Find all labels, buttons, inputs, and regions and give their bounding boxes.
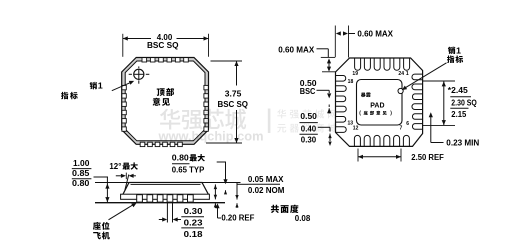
- pad extension lines: [422, 81, 455, 125]
- 0.02 NOM witness line: [235, 183, 238, 200]
- 0.20 REF bracket: [215, 203, 221, 218]
- separator line: [300, 133, 318, 135]
- dimension 3.75 BSC SQ line and arrows: [234, 61, 238, 143]
- svg-text:19: 19: [352, 71, 358, 77]
- svg-text:18: 18: [348, 79, 354, 85]
- 0.65 TYP bracket: [217, 162, 228, 194]
- separator line: [172, 163, 190, 165]
- separator line: [72, 168, 92, 170]
- pin width arrows: [159, 217, 181, 221]
- 12° lead edge line: [125, 175, 129, 191]
- bottom view bottom pins: [354, 135, 409, 146]
- label 意见: [153, 98, 161, 106]
- svg-text:0.60 MAX: 0.60 MAX: [278, 44, 314, 54]
- 0.40 arrows: [328, 134, 331, 146]
- watermark: [158, 109, 337, 144]
- 0.60 MAX left arrows: [327, 58, 331, 71]
- pin 1 leader arrow: [112, 81, 134, 91]
- label 指标 (top view): [61, 92, 68, 99]
- svg-text:0.30: 0.30: [184, 206, 203, 216]
- separator line: [450, 96, 471, 98]
- separator line: [300, 122, 318, 124]
- 0.60 MAX left extension lines: [321, 57, 336, 71]
- 0.60 MAX left leader: [317, 49, 329, 57]
- separator line: [450, 107, 468, 109]
- svg-text:6: 6: [406, 121, 409, 127]
- bottom view right pins: [412, 74, 422, 129]
- bottom view package outline: [336, 58, 423, 146]
- pin 1 indicator target symbol: [129, 66, 150, 83]
- bottom view left pins: [336, 76, 347, 133]
- dimension 4.00 BSC SQ extension lines: [123, 34, 209, 57]
- dimension 3.75 BSC SQ extension lines: [206, 61, 242, 143]
- top view package outer outline: [122, 58, 209, 145]
- pin numbers: [348, 71, 410, 132]
- label 12°最大: [109, 161, 137, 171]
- exposed pad outline: [357, 80, 403, 126]
- svg-text:12°: 12°: [109, 161, 122, 171]
- label 销1 (top view): [90, 81, 103, 91]
- svg-text:2.30 SQ: 2.30 SQ: [451, 98, 477, 108]
- dimension 1.00 0.85 0.80 line and arrows: [105, 177, 109, 202]
- label 座位: [93, 222, 101, 230]
- 0.02 NOM leader: [237, 183, 248, 185]
- svg-text:0.05 MAX: 0.05 MAX: [248, 174, 284, 184]
- standoff arrow: [214, 184, 217, 199]
- bottom view top pins: [355, 58, 410, 70]
- svg-text:BSC SQ: BSC SQ: [147, 40, 179, 50]
- pin width witness lines: [167, 203, 172, 223]
- dimension text 0.80最大: [172, 153, 205, 163]
- dimension 1.00 0.85 0.80 leader: [94, 176, 109, 178]
- svg-text:0.20 REF: 0.20 REF: [221, 212, 254, 222]
- svg-text:2.50 REF: 2.50 REF: [411, 152, 444, 162]
- separator line: [248, 183, 280, 185]
- svg-text:7: 7: [400, 125, 403, 131]
- side view pins: [137, 195, 194, 202]
- 0.40 leader: [318, 127, 330, 131]
- label 销1 (bottom view): [448, 45, 461, 55]
- side view lead frame strip: [121, 194, 210, 199]
- label 飞机: [93, 232, 101, 239]
- top view package inner outline: [125, 61, 205, 141]
- svg-text:0.02 NOM: 0.02 NOM: [248, 185, 285, 195]
- svg-text:0.80: 0.80: [72, 178, 90, 188]
- label 指标 (bottom view): [447, 56, 454, 63]
- separator line: [181, 227, 204, 229]
- pad dimension line: [442, 81, 446, 125]
- seating plane line: [95, 202, 225, 204]
- 2.50 REF extension lines: [358, 149, 401, 162]
- 0.50 BSC arrows: [327, 93, 331, 113]
- svg-text:0.65 TYP: 0.65 TYP: [172, 164, 205, 174]
- 0.02 NOM arrow below seating plane: [235, 203, 238, 208]
- standoff arrow below seating plane: [214, 203, 217, 208]
- svg-text:24: 24: [398, 71, 404, 77]
- pad label 暴露: [361, 93, 366, 98]
- svg-text:2.15: 2.15: [451, 109, 466, 119]
- seating plane leader arrow: [109, 203, 137, 220]
- svg-text:0.18: 0.18: [184, 229, 203, 239]
- svg-text:1: 1: [406, 71, 409, 77]
- dimension 4.00 BSC SQ line and arrows: [123, 36, 209, 40]
- svg-text:0.85: 0.85: [72, 168, 90, 178]
- svg-text:www.hqchip.com: www.hqchip.com: [158, 128, 264, 143]
- svg-text:1: 1: [456, 45, 461, 55]
- label 共面度: [271, 205, 279, 213]
- svg-text:BSC: BSC: [300, 86, 316, 96]
- separator line: [181, 216, 204, 218]
- 2.50 REF line and arrows: [358, 155, 401, 159]
- svg-text:1.00: 1.00: [73, 158, 90, 168]
- svg-text:0.23: 0.23: [184, 218, 203, 228]
- pad pin 1 circle: [398, 88, 403, 93]
- svg-text:0.08: 0.08: [295, 213, 311, 223]
- 0.23 MIN line: [429, 112, 444, 142]
- svg-text:0.60 MAX: 0.60 MAX: [357, 29, 393, 39]
- 0.60 MAX top arrows: [336, 31, 355, 35]
- svg-text:12: 12: [353, 126, 359, 132]
- svg-text:PAD: PAD: [370, 103, 384, 110]
- svg-text:0.30: 0.30: [301, 135, 317, 145]
- pad label (底部意见): [359, 111, 392, 117]
- svg-text:BSC SQ: BSC SQ: [218, 99, 249, 109]
- svg-text:0.80: 0.80: [172, 153, 189, 163]
- side view body outline: [123, 183, 208, 195]
- svg-text:1: 1: [98, 81, 103, 91]
- 12° witness line: [125, 173, 127, 180]
- side view body top extension line: [95, 182, 241, 184]
- 12° arrows: [116, 174, 136, 178]
- pad pin 1 leader arrow: [402, 63, 447, 90]
- svg-text:3.75: 3.75: [225, 89, 242, 99]
- svg-text:*2.45: *2.45: [448, 85, 468, 95]
- top view edge pin marks: [122, 58, 208, 147]
- separator line: [72, 178, 92, 180]
- svg-text:0.23 MIN: 0.23 MIN: [446, 138, 479, 148]
- 0.50 BSC leader: [317, 90, 330, 93]
- label 顶部: [157, 88, 165, 96]
- 0.60 MAX top extension lines: [335, 26, 348, 58]
